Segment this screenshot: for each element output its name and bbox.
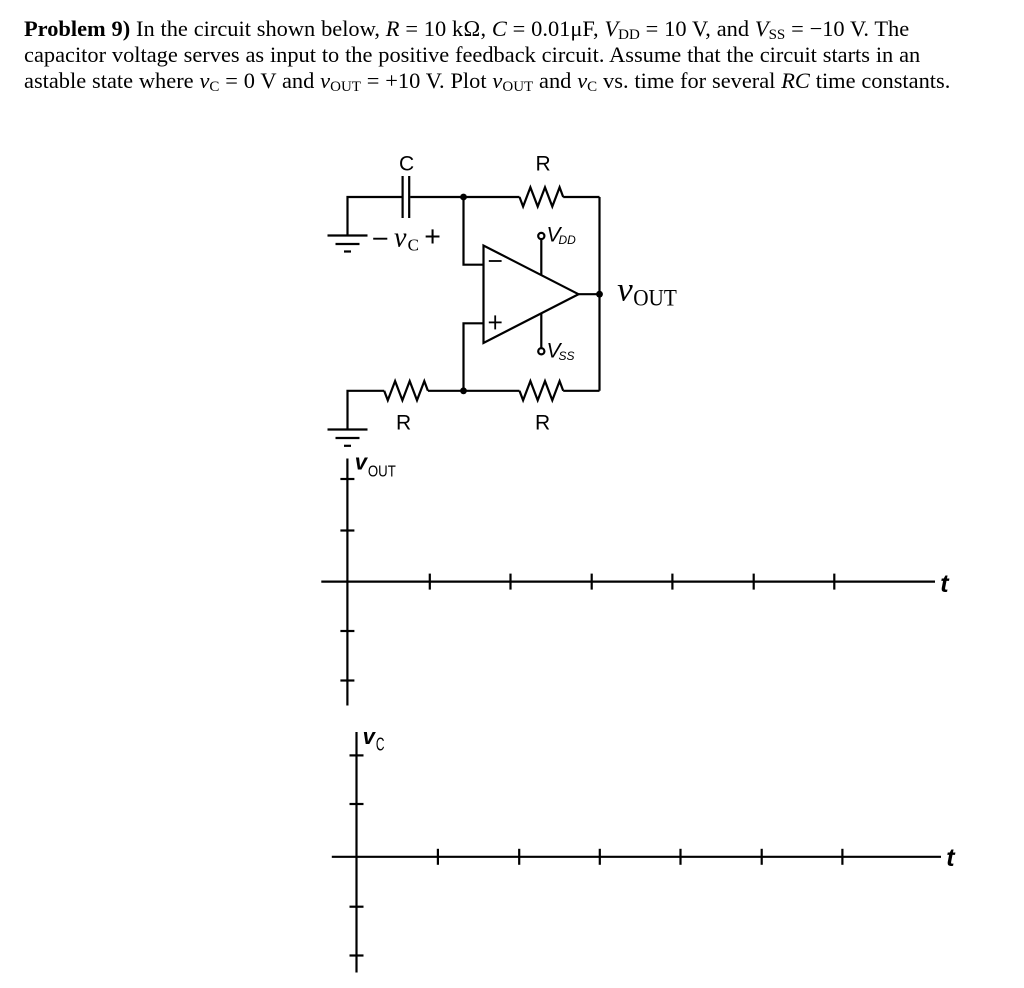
wire R2 to node C xyxy=(428,390,464,392)
wire R1 to right rail xyxy=(563,196,599,198)
svg-text:OUT: OUT xyxy=(368,464,396,481)
op-amp inverting input minus sign xyxy=(489,260,502,262)
graph 1 x-axis tick 2 xyxy=(509,574,511,590)
svg-text:+: + xyxy=(424,221,441,253)
graph 2 x-axis tick 3 xyxy=(599,849,601,865)
graph 2 horizontal t axis xyxy=(332,856,941,858)
wire node C up to non-inverting input xyxy=(464,323,484,391)
svg-text:t: t xyxy=(940,570,950,598)
graph 1 horizontal t axis xyxy=(321,580,935,582)
graph 2 y-axis tick +2 xyxy=(350,754,364,756)
ground G1 (capacitor reference) xyxy=(328,236,368,252)
VDD supply pin wire xyxy=(540,239,542,274)
graph 1 vOUT vertical axis xyxy=(346,459,348,706)
VDD terminal circle xyxy=(538,233,544,239)
wire capacitor to node A xyxy=(410,196,463,198)
wire bottom-left ground to resistor R2 xyxy=(348,391,385,430)
graph 2 x-axis tick 1 xyxy=(437,849,439,865)
wire node A to resistor R1 xyxy=(464,196,520,198)
graph 2 y-axis tick -1 xyxy=(350,906,364,908)
graph 1 y-axis tick +1 xyxy=(340,529,354,531)
capacitor polarity label - vC + xyxy=(373,221,441,255)
wire node A down to inverting input xyxy=(464,197,484,265)
svg-text:C: C xyxy=(408,236,419,255)
graph 1 x-axis tick 4 xyxy=(671,574,673,590)
graph 1 x-axis tick 5 xyxy=(753,574,755,590)
svg-text:C: C xyxy=(376,734,385,755)
VSS label xyxy=(547,339,575,363)
svg-text:C: C xyxy=(399,153,414,176)
wire R3 to right rail xyxy=(563,390,599,392)
graph 1 x-axis tick 3 xyxy=(591,574,593,590)
svg-text:SS: SS xyxy=(559,349,575,363)
resistor R1 (top feedback) xyxy=(520,187,564,206)
svg-text:t: t xyxy=(946,844,956,872)
vOUT label xyxy=(617,272,677,312)
capacitor C plates xyxy=(403,176,410,218)
graph 2 x-axis tick 4 xyxy=(679,849,681,865)
node A junction dot xyxy=(460,194,467,201)
graph 2 x-axis tick 6 xyxy=(841,849,843,865)
wire top-left from ground to capacitor xyxy=(348,197,402,236)
graph 1 x-axis tick 1 xyxy=(429,574,431,590)
svg-text:R: R xyxy=(396,412,411,435)
graph 2 x-axis tick 5 xyxy=(761,849,763,865)
svg-text:v: v xyxy=(363,724,377,749)
op-amp U1 triangle xyxy=(484,246,579,344)
resistor R2 (to ground) xyxy=(384,381,428,400)
VSS supply pin wire xyxy=(540,314,542,348)
node C junction dot xyxy=(460,387,467,394)
graph 2 vC vertical axis xyxy=(355,732,357,973)
graph 2 x-axis tick 2 xyxy=(518,849,520,865)
wire node C to resistor R3 xyxy=(464,390,520,392)
svg-text:DD: DD xyxy=(559,233,577,247)
svg-text:R: R xyxy=(536,153,551,176)
svg-text:v: v xyxy=(355,450,369,475)
resistor R3 (bottom feedback) xyxy=(520,381,564,400)
wire op-amp output to node B xyxy=(579,293,600,295)
graph 2 y-axis tick -2 xyxy=(350,954,364,956)
VSS terminal circle xyxy=(538,348,544,354)
graph 1 y-axis tick -1 xyxy=(340,630,354,632)
right rail wire (vout column) xyxy=(598,197,600,391)
node B output junction dot xyxy=(596,291,603,298)
op-amp non-inverting input plus sign xyxy=(489,315,502,329)
graph 1 y-axis tick +2 xyxy=(340,478,354,480)
ground G2 (divider reference) xyxy=(328,430,368,446)
graph 2 vC axis label xyxy=(363,724,385,755)
VDD label xyxy=(547,223,577,247)
svg-text:v: v xyxy=(617,272,634,309)
graph 2 y-axis tick +1 xyxy=(350,803,364,805)
graph 1 x-axis tick 6 xyxy=(833,574,835,590)
svg-text:R: R xyxy=(535,412,550,435)
graph 1 y-axis tick -2 xyxy=(340,679,354,681)
svg-text:v: v xyxy=(394,222,407,253)
svg-text:OUT: OUT xyxy=(633,286,677,312)
graph 1 vOUT axis label xyxy=(355,450,396,481)
